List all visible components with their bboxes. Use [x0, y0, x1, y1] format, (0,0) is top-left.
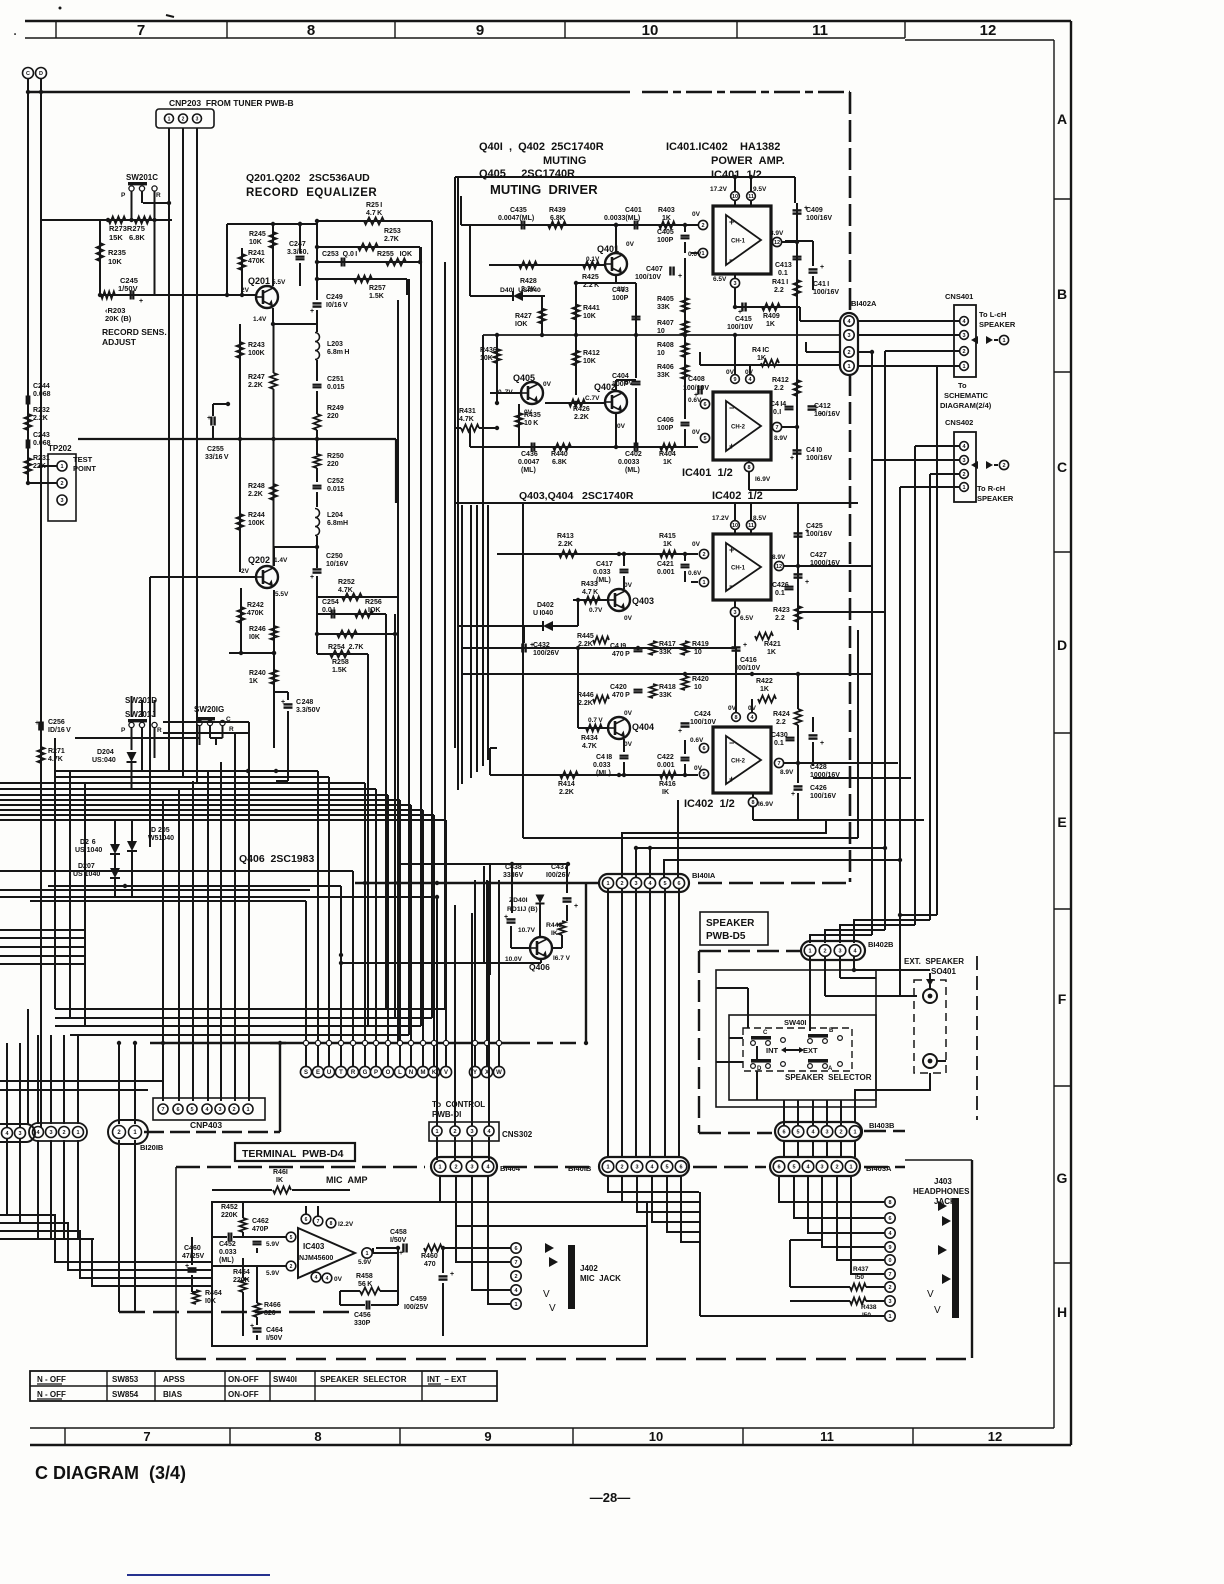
svg-text:CH-1: CH-1	[731, 566, 746, 572]
svg-text:F: F	[1058, 991, 1067, 1007]
svg-text:C252: C252	[327, 478, 344, 485]
svg-text:1K: 1K	[767, 649, 776, 656]
svg-text:5: 5	[703, 436, 706, 442]
svg-text:0V: 0V	[624, 582, 633, 589]
svg-text:4.7K: 4.7K	[459, 416, 474, 423]
svg-text:IC402 1/2: IC402 1/2	[684, 798, 735, 810]
svg-text:2.7K: 2.7K	[384, 236, 399, 243]
svg-text:8: 8	[747, 465, 750, 471]
svg-text:1: 1	[853, 1129, 856, 1135]
svg-text:470 P: 470 P	[612, 651, 630, 658]
svg-text:R403: R403	[658, 207, 675, 214]
svg-text:R245: R245	[249, 231, 266, 238]
svg-text:R434: R434	[581, 735, 598, 742]
svg-text:R235: R235	[108, 248, 126, 257]
svg-text:33K: 33K	[659, 692, 672, 699]
svg-text:R: R	[229, 726, 234, 733]
svg-text:+: +	[729, 217, 734, 227]
svg-text:TERMINAL PWB-D4: TERMINAL PWB-D4	[242, 1148, 344, 1160]
svg-text:1: 1	[606, 881, 609, 887]
svg-text:2.2: 2.2	[774, 385, 784, 392]
svg-text:8: 8	[307, 22, 315, 39]
svg-text:C4 I9: C4 I9	[610, 643, 626, 650]
svg-text:+: +	[678, 273, 682, 280]
svg-text:12: 12	[988, 1429, 1002, 1444]
svg-text:C436: C436	[521, 451, 538, 458]
svg-text:BI20IB: BI20IB	[140, 1143, 164, 1152]
svg-text:R252: R252	[338, 579, 355, 586]
svg-text:J402: J402	[580, 1264, 598, 1273]
svg-text:470: 470	[424, 1261, 436, 1268]
svg-text:+: +	[450, 1271, 454, 1278]
svg-text:2: 2	[835, 1164, 838, 1170]
svg-text:1/50V: 1/50V	[118, 284, 138, 293]
svg-text:C456: C456	[354, 1312, 371, 1319]
svg-text:Q403,Q404 2SC1740R: Q403,Q404 2SC1740R	[519, 490, 634, 502]
svg-text:0․I: 0․I	[773, 409, 781, 416]
svg-text:SW854: SW854	[112, 1390, 139, 1399]
svg-text:+: +	[250, 1323, 254, 1330]
svg-text:C: C	[26, 71, 30, 77]
svg-text:I0K: I0K	[249, 634, 260, 641]
svg-text:100/10V: 100/10V	[683, 385, 709, 392]
svg-text:2: 2	[290, 1264, 293, 1270]
svg-text:C426: C426	[810, 785, 827, 792]
svg-text:C403: C403	[612, 287, 629, 294]
svg-text:R246: R246	[249, 626, 266, 633]
svg-text:EXT. SPEAKER: EXT. SPEAKER	[904, 957, 964, 966]
svg-text:6: 6	[888, 1216, 891, 1222]
svg-text:10K: 10K	[108, 257, 122, 266]
svg-text:1: 1	[1002, 338, 1005, 344]
svg-text:D402: D402	[537, 602, 554, 609]
svg-text:100K: 100K	[248, 520, 265, 527]
svg-text:(ML): (ML)	[521, 467, 536, 474]
svg-text:6.8mH: 6.8mH	[327, 520, 348, 527]
svg-text:100/16V: 100/16V	[810, 793, 836, 800]
svg-text:N: N	[409, 1070, 413, 1076]
svg-text:ZD40I: ZD40I	[509, 897, 528, 904]
svg-text:33K: 33K	[659, 649, 672, 656]
svg-text:3: 3	[825, 1129, 828, 1135]
svg-text:P: P	[374, 1070, 378, 1076]
svg-text:TP202: TP202	[48, 444, 72, 453]
svg-text:R417: R417	[659, 641, 676, 648]
svg-text:0V: 0V	[334, 1276, 343, 1283]
svg-text:BI404: BI404	[500, 1164, 521, 1173]
svg-text:APSS: APSS	[163, 1375, 185, 1384]
svg-text:0.068: 0.068	[33, 440, 51, 447]
svg-text:33K: 33K	[657, 372, 670, 379]
svg-text:R435: R435	[524, 412, 541, 419]
svg-text:To R-cH: To R-cH	[977, 484, 1005, 493]
svg-text:B: B	[1057, 286, 1067, 302]
svg-text:2: 2	[701, 223, 704, 229]
svg-text:100/26V: 100/26V	[533, 650, 559, 657]
svg-text:R413: R413	[557, 533, 574, 540]
svg-text:Q40I , Q402 25C1740R: Q40I , Q402 25C1740R	[479, 141, 604, 153]
svg-text:−: −	[729, 581, 734, 591]
svg-text:IC401 1/2: IC401 1/2	[682, 467, 733, 479]
svg-text:5.9V: 5.9V	[358, 1259, 372, 1266]
svg-text:0V: 0V	[543, 381, 552, 388]
svg-text:0V: 0V	[624, 741, 633, 748]
svg-text:C430: C430	[771, 732, 788, 739]
svg-text:NJM45600: NJM45600	[299, 1255, 333, 1262]
svg-text:BI402B: BI402B	[868, 940, 894, 949]
svg-text:I2.2V: I2.2V	[338, 1221, 354, 1228]
svg-text:7: 7	[514, 1260, 517, 1266]
svg-text:CH-2: CH-2	[731, 425, 746, 431]
svg-text:1: 1	[60, 464, 63, 470]
svg-text:100/10V: 100/10V	[727, 324, 753, 331]
svg-text:1K: 1K	[663, 541, 672, 548]
svg-text:2.2: 2.2	[776, 719, 786, 726]
svg-text:10.7V: 10.7V	[518, 927, 536, 934]
svg-text:C426: C426	[772, 582, 789, 589]
svg-text:POINT: POINT	[73, 464, 96, 473]
svg-text:0.1: 0.1	[778, 270, 788, 277]
svg-text:100/16V: 100/16V	[806, 531, 832, 538]
svg-text:100P: 100P	[657, 425, 674, 432]
svg-text:R425: R425	[582, 274, 599, 281]
svg-text:IC402 1/2: IC402 1/2	[712, 490, 763, 502]
svg-text:1: 1	[962, 364, 965, 370]
svg-text:C4 I4: C4 I4	[770, 401, 786, 408]
svg-text:6: 6	[176, 1107, 179, 1113]
svg-text:R254 2.7K: R254 2.7K	[328, 644, 363, 651]
svg-text:11: 11	[748, 194, 754, 200]
svg-text:0V: 0V	[692, 429, 701, 436]
svg-text:POWER AMP.: POWER AMP.	[711, 155, 785, 167]
svg-text:0V: 0V	[694, 765, 703, 772]
svg-text:1: 1	[246, 1107, 249, 1113]
svg-text:1: 1	[435, 1129, 438, 1135]
svg-text:To CONTROL: To CONTROL	[432, 1100, 485, 1109]
svg-text:C406: C406	[657, 417, 674, 424]
svg-text:0.0033: 0.0033	[618, 459, 640, 466]
svg-text:0: 0	[888, 1258, 891, 1264]
svg-text:D204: D204	[97, 749, 114, 756]
svg-text:+: +	[729, 441, 734, 451]
svg-text:1K: 1K	[662, 215, 671, 222]
svg-text:R258: R258	[332, 659, 349, 666]
svg-text:10K: 10K	[480, 355, 493, 362]
svg-text:C427: C427	[810, 552, 827, 559]
svg-text:R419: R419	[692, 641, 709, 648]
svg-text:12: 12	[774, 240, 780, 246]
svg-text:R406: R406	[657, 364, 674, 371]
svg-text:100/16V: 100/16V	[814, 411, 840, 418]
svg-text:To: To	[958, 381, 967, 390]
svg-text:10: 10	[694, 684, 702, 691]
svg-text:10 K: 10 K	[524, 420, 538, 427]
svg-text:R231: R231	[33, 455, 50, 462]
svg-text:V: V	[444, 1070, 448, 1076]
svg-text:6: 6	[514, 1246, 517, 1252]
svg-text:3: 3	[49, 1130, 52, 1136]
svg-text:2: 2	[962, 349, 965, 355]
svg-text:10: 10	[694, 649, 702, 656]
svg-text:C420: C420	[610, 684, 627, 691]
svg-text:R409: R409	[763, 313, 780, 320]
svg-text:Q201: Q201	[248, 276, 270, 286]
svg-text:0V: 0V	[626, 241, 635, 248]
svg-text:I00/25V: I00/25V	[404, 1304, 428, 1311]
svg-text:10: 10	[657, 350, 665, 357]
svg-text:6: 6	[777, 1164, 780, 1170]
svg-text:A: A	[828, 1066, 833, 1072]
svg-text:DIAGRAM(2/4): DIAGRAM(2/4)	[940, 401, 992, 410]
svg-text:2.2K: 2.2K	[559, 789, 574, 796]
svg-text:10K: 10K	[249, 239, 262, 246]
svg-text:4.7K: 4.7K	[582, 743, 597, 750]
svg-text:R414: R414	[558, 781, 575, 788]
svg-text:J403: J403	[934, 1177, 952, 1186]
svg-text:8: 8	[734, 715, 737, 721]
svg-text:8.9V: 8.9V	[770, 230, 784, 237]
svg-text:2.2K: 2.2K	[578, 641, 593, 648]
svg-text:N - OFF: N - OFF	[37, 1375, 66, 1384]
svg-text:INT – EXT: INT – EXT	[427, 1375, 467, 1384]
svg-text:R458: R458	[356, 1273, 373, 1280]
svg-text:HEADPHONES: HEADPHONES	[913, 1187, 970, 1196]
svg-text:3: 3	[888, 1299, 891, 1305]
svg-text:100K: 100K	[248, 350, 265, 357]
svg-text:3: 3	[820, 1164, 823, 1170]
svg-text:2.2K: 2.2K	[33, 415, 48, 422]
svg-text:C250: C250	[326, 553, 343, 560]
svg-text:2: 2	[962, 472, 965, 478]
svg-text:CNP403: CNP403	[190, 1120, 222, 1130]
svg-text:+: +	[820, 264, 824, 271]
svg-text:1.5K: 1.5K	[332, 667, 347, 674]
svg-text:6: 6	[782, 1129, 785, 1135]
svg-text:5.9V: 5.9V	[266, 1241, 280, 1248]
svg-text:US:040: US:040	[92, 757, 116, 764]
svg-text:0.001: 0.001	[657, 569, 675, 576]
svg-text:1K: 1K	[757, 355, 766, 362]
svg-text:4: 4	[326, 1276, 329, 1282]
svg-text:1: 1	[438, 1164, 441, 1170]
svg-text:Q404: Q404	[632, 722, 654, 732]
svg-text:US 1040: US 1040	[75, 847, 102, 854]
svg-text:1: 1	[808, 948, 811, 954]
svg-text:+: +	[504, 914, 508, 921]
svg-text:BI402A: BI402A	[851, 299, 877, 308]
svg-text:R441: R441	[583, 305, 600, 312]
svg-text:0.001: 0.001	[657, 762, 675, 769]
svg-text:R424: R424	[773, 711, 790, 718]
svg-text:C404: C404	[612, 373, 629, 380]
svg-text:7: 7	[161, 1107, 164, 1113]
svg-text:M: M	[421, 1070, 426, 1076]
svg-text:MUTING DRIVER: MUTING DRIVER	[490, 182, 598, 197]
svg-text:IC401.IC402 HA1382: IC401.IC402 HA1382	[666, 141, 780, 153]
svg-text:0V: 0V	[692, 541, 701, 548]
svg-text:SW40I: SW40I	[784, 1018, 807, 1027]
svg-text:V: V	[934, 1305, 941, 1316]
svg-text:4: 4	[315, 1275, 318, 1281]
svg-text:SPEAKER SELECTOR: SPEAKER SELECTOR	[785, 1073, 872, 1082]
svg-text:R412: R412	[772, 377, 789, 384]
svg-text:SW201C: SW201C	[126, 173, 158, 182]
svg-text:IOK: IOK	[368, 607, 380, 614]
svg-text:C408: C408	[688, 376, 705, 383]
svg-text:3: 3	[733, 281, 736, 287]
svg-text:5: 5	[190, 1107, 193, 1113]
svg-text:+: +	[729, 774, 734, 784]
svg-text:C464: C464	[266, 1327, 283, 1334]
svg-text:MUTING: MUTING	[543, 155, 586, 167]
svg-text:1.4V: 1.4V	[253, 316, 267, 323]
svg-text:3: 3	[634, 881, 637, 887]
svg-text:10: 10	[649, 1429, 663, 1444]
svg-text:5: 5	[663, 881, 666, 887]
svg-text:R466: R466	[264, 1302, 281, 1309]
svg-text:2.2: 2.2	[774, 287, 784, 294]
svg-text:R415: R415	[659, 533, 676, 540]
svg-text:220K: 220K	[221, 1212, 238, 1219]
svg-text:47/25V: 47/25V	[182, 1253, 205, 1260]
svg-text:C401: C401	[625, 207, 642, 214]
svg-text:5: 5	[290, 1235, 293, 1241]
svg-text:3: 3	[60, 498, 63, 504]
svg-text:C4 I0: C4 I0	[806, 447, 822, 454]
svg-text:10K: 10K	[583, 313, 596, 320]
svg-text:C417: C417	[596, 561, 613, 568]
svg-text:0.1: 0.1	[775, 590, 785, 597]
svg-text:1: 1	[888, 1314, 891, 1320]
svg-text:2: 2	[453, 1129, 456, 1135]
svg-text:C41 I: C41 I	[813, 281, 829, 288]
svg-text:3: 3	[470, 1164, 473, 1170]
svg-text:8: 8	[314, 1429, 321, 1444]
svg-text:T: T	[339, 1070, 343, 1076]
svg-text:C422: C422	[657, 754, 674, 761]
svg-text:3: 3	[18, 1131, 21, 1137]
svg-text:1K: 1K	[249, 678, 258, 685]
svg-text:2: 2	[60, 481, 63, 487]
svg-text:3: 3	[838, 948, 841, 954]
svg-text:I00/10V: I00/10V	[736, 665, 760, 672]
svg-text:4.7 K: 4.7 K	[582, 589, 598, 596]
svg-text:O: O	[386, 1070, 391, 1076]
svg-text:+: +	[678, 728, 682, 735]
svg-text:R41 I: R41 I	[772, 279, 788, 286]
svg-text:E: E	[1057, 814, 1066, 830]
svg-text:470K: 470K	[248, 258, 265, 265]
svg-text:9: 9	[888, 1245, 891, 1251]
svg-text:R256: R256	[365, 599, 382, 606]
svg-text:MIC AMP: MIC AMP	[326, 1175, 368, 1185]
svg-text:2.2K: 2.2K	[248, 382, 263, 389]
svg-text:SPEAKER SELECTOR: SPEAKER SELECTOR	[320, 1375, 407, 1384]
svg-text:2: 2	[232, 1107, 235, 1113]
svg-text:R407: R407	[657, 320, 674, 327]
svg-text:0.7V: 0.7V	[589, 607, 603, 614]
svg-text:C405: C405	[657, 229, 674, 236]
svg-text:1: 1	[849, 1164, 852, 1170]
svg-text:R446: R446	[577, 692, 594, 699]
svg-text:R437: R437	[853, 1266, 869, 1273]
svg-text:0.1: 0.1	[774, 740, 784, 747]
svg-text:(ML): (ML)	[219, 1257, 234, 1264]
svg-text:0V: 0V	[692, 211, 701, 218]
svg-text:RECORD EQUALIZER: RECORD EQUALIZER	[246, 187, 377, 199]
svg-text:RECORD SENS.: RECORD SENS.	[102, 327, 167, 337]
svg-text:3: 3	[635, 1164, 638, 1170]
svg-text:R4 IC: R4 IC	[752, 347, 769, 354]
svg-text:R240: R240	[249, 670, 266, 677]
svg-text:+: +	[820, 740, 824, 747]
svg-text:6: 6	[677, 881, 680, 887]
svg-text:Q405: Q405	[513, 373, 535, 383]
svg-text:33K: 33K	[657, 304, 670, 311]
svg-text:Q202: Q202	[248, 555, 270, 565]
svg-text:BI403A: BI403A	[866, 1164, 892, 1173]
svg-text:2: 2	[702, 552, 705, 558]
svg-text:C415: C415	[735, 316, 752, 323]
svg-text:2: 2	[514, 1274, 517, 1280]
svg-text:1: 1	[76, 1130, 79, 1136]
svg-text:7: 7	[137, 22, 145, 39]
svg-text:2V: 2V	[241, 568, 250, 575]
svg-text:3: 3	[962, 333, 965, 339]
svg-text:R426: R426	[573, 406, 590, 413]
svg-text:R404: R404	[659, 451, 676, 458]
svg-text:R454: R454	[233, 1269, 250, 1276]
svg-text:4.7K: 4.7K	[338, 587, 353, 594]
svg-text:ON-OFF: ON-OFF	[228, 1390, 259, 1399]
svg-text:0.015: 0.015	[327, 384, 345, 391]
svg-text:D40I USI040: D40I USI040	[500, 287, 541, 294]
svg-text:5.5V: 5.5V	[275, 591, 289, 598]
svg-text:1K: 1K	[663, 459, 672, 466]
svg-text:1: 1	[514, 1302, 517, 1308]
svg-text:Q403: Q403	[632, 596, 654, 606]
svg-text:0V: 0V	[624, 710, 633, 717]
svg-text:US 1040: US 1040	[73, 871, 100, 878]
svg-text:N - OFF: N - OFF	[37, 1390, 66, 1399]
svg-text:−: −	[729, 255, 734, 265]
svg-text:R438: R438	[861, 1304, 877, 1311]
svg-text:C459: C459	[410, 1296, 427, 1303]
svg-text:1.5K: 1.5K	[369, 293, 384, 300]
svg-text:20K (B): 20K (B)	[105, 314, 132, 323]
svg-text:R427: R427	[515, 313, 532, 320]
svg-text:R241: R241	[248, 250, 265, 257]
svg-text:6.8K: 6.8K	[552, 459, 567, 466]
svg-text:R255 IOK: R255 IOK	[377, 251, 412, 258]
svg-text:+: +	[281, 699, 285, 706]
svg-text:V: V	[549, 1303, 556, 1314]
svg-text:1: 1	[168, 116, 171, 122]
svg-text:3: 3	[733, 610, 736, 616]
svg-text:C: C	[763, 1030, 768, 1036]
svg-text:2: 2	[620, 881, 623, 887]
svg-text:R464: R464	[205, 1290, 222, 1297]
svg-text:C256: C256	[48, 719, 65, 726]
svg-text:220: 220	[327, 413, 339, 420]
svg-text:CNP203 FROM TUNER PWB-B: CNP203 FROM TUNER PWB-B	[169, 98, 294, 108]
svg-text:5: 5	[792, 1164, 795, 1170]
svg-text:C249: C249	[326, 294, 343, 301]
svg-text:2: 2	[888, 1285, 891, 1291]
svg-text:8: 8	[330, 1221, 333, 1227]
svg-text:0.068: 0.068	[33, 391, 51, 398]
svg-text:470P: 470P	[252, 1226, 269, 1233]
